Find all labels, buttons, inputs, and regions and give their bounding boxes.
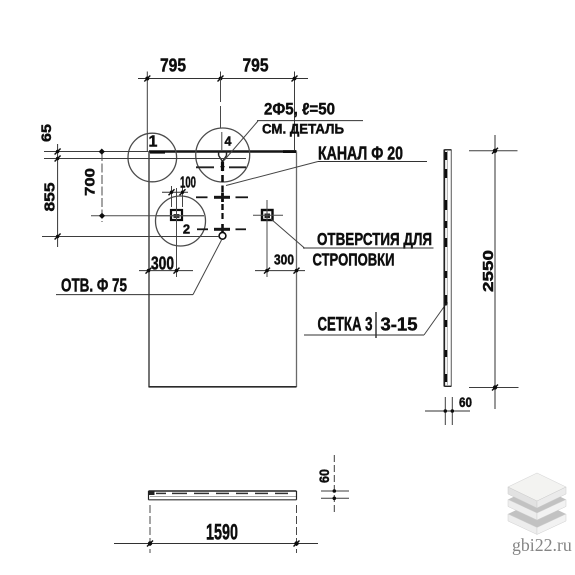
dimension 100 hole width — [162, 175, 196, 208]
svg-text:СТРОПОВКИ: СТРОПОВКИ — [313, 250, 395, 270]
svg-text:60: 60 — [459, 394, 472, 410]
label channel d20 with leader — [226, 144, 427, 186]
lifting notch at top center of panel — [219, 151, 227, 172]
detail callout circle 4 — [196, 128, 250, 182]
svg-text:65: 65 — [38, 124, 54, 142]
svg-text:3-15: 3-15 — [381, 315, 418, 335]
svg-text:ОТВЕРСТИЯ ДЛЯ: ОТВЕРСТИЯ ДЛЯ — [317, 229, 432, 249]
svg-text:gbi22.ru: gbi22.ru — [512, 535, 572, 555]
dimension 60 bottom view thickness — [316, 455, 349, 515]
dimension 300 lower left — [139, 254, 193, 274]
dimension 700 left inner — [82, 148, 205, 222]
centre axis from top dimension to circle 4 — [221, 79, 222, 151]
channel horizontal dashed line lower — [197, 228, 246, 230]
svg-text:795: 795 — [243, 55, 269, 76]
side view channel marks — [445, 152, 448, 382]
svg-text:700: 700 — [82, 168, 98, 196]
left lifting hole — [157, 188, 204, 277]
svg-text:4: 4 — [225, 135, 232, 149]
dimension 855 left — [42, 183, 220, 240]
channel anchor point circle — [219, 232, 226, 239]
channel horizontal dashed line top — [196, 166, 246, 168]
dimension 2550 right — [469, 135, 519, 409]
svg-text:100: 100 — [180, 175, 196, 192]
label 2f5 l=50 with leader — [224, 101, 363, 161]
bottom view mesh dashes — [156, 492, 288, 494]
svg-text:60: 60 — [316, 469, 332, 483]
svg-text:2550: 2550 — [481, 250, 497, 292]
detail callout circle 1 — [128, 133, 177, 182]
dimension 65 left — [38, 124, 246, 247]
dimension 795 795 top — [138, 55, 308, 152]
svg-text:795: 795 — [160, 55, 186, 76]
svg-text:СЕТКА 3: СЕТКА 3 — [318, 315, 373, 336]
svg-text:2: 2 — [183, 222, 190, 237]
dimension 60 side view thickness — [425, 394, 472, 425]
channel centre axis (vertical dash-dot) — [221, 163, 223, 233]
channel horizontal dashed line middle — [196, 196, 248, 198]
svg-text:СМ. ДЕТАЛЬ: СМ. ДЕТАЛЬ — [262, 121, 344, 137]
middle slab — [508, 486, 566, 514]
label holes for slinging with leader — [271, 219, 434, 270]
detail callout circle 2 — [156, 196, 206, 246]
svg-text:300: 300 — [151, 254, 174, 274]
panel front view outline — [149, 150, 297, 387]
svg-text:КАНАЛ Ф 20: КАНАЛ Ф 20 — [318, 144, 403, 164]
svg-text:1: 1 — [149, 134, 158, 151]
svg-text:300: 300 — [274, 252, 294, 269]
logo slab stack — [508, 473, 566, 535]
right lifting hole — [253, 200, 283, 277]
label mesh 3/3-15 with leader — [304, 302, 448, 339]
label otv d75 with leader — [56, 240, 222, 296]
dimension 1590 bottom — [114, 505, 318, 553]
svg-text:2Ф5, ℓ=50: 2Ф5, ℓ=50 — [264, 101, 335, 119]
dimension 300 lower right — [255, 252, 305, 274]
svg-text:ОТВ. Ф 75: ОТВ. Ф 75 — [61, 276, 127, 296]
side view outline — [444, 150, 451, 387]
bottom plan view outline — [149, 491, 297, 500]
top slab — [508, 473, 566, 501]
svg-text:1590: 1590 — [206, 520, 238, 545]
svg-text:855: 855 — [43, 183, 59, 212]
bottom slab — [508, 500, 566, 528]
